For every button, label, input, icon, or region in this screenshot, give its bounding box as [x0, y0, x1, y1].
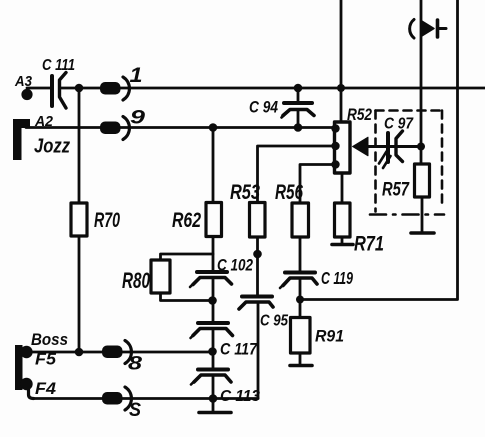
capacitor C94	[249, 88, 314, 128]
svg-text:C 97: C 97	[384, 116, 414, 133]
svg-text:C 111: C 111	[42, 57, 75, 74]
svg-text:1: 1	[130, 64, 143, 87]
node R53 bottom / C95 top	[253, 250, 262, 259]
resistor R53	[230, 181, 265, 237]
svg-text:C 95: C 95	[260, 313, 288, 330]
svg-text:F5: F5	[35, 351, 57, 369]
wire W9 (net 9, y=127.5)	[26, 126, 335, 129]
node C119 bottom / R91 top	[296, 296, 304, 304]
svg-text:A3: A3	[14, 73, 32, 90]
node R70 bottom on wire B	[75, 348, 84, 357]
capacitor C119	[280, 268, 353, 288]
svg-text:R70: R70	[94, 209, 120, 232]
node C102 bottom / R80 bottom	[208, 296, 217, 305]
ground (R71)	[332, 243, 353, 247]
svg-text:C 113: C 113	[220, 388, 260, 405]
capacitor C95	[239, 297, 288, 330]
resistor R56	[275, 181, 309, 237]
svg-text:R80: R80	[122, 268, 151, 293]
ground (R91)	[290, 364, 312, 368]
wire R80 bottom to V2	[161, 293, 214, 301]
svg-text:R71: R71	[354, 233, 384, 256]
capacitor C102	[190, 257, 253, 288]
node C97 / R57 top	[417, 143, 425, 151]
svg-text:9: 9	[130, 108, 146, 129]
diode at top right	[410, 20, 446, 39]
svg-text:8: 8	[128, 354, 143, 375]
wire V1 (R70 branch x=79)	[78, 88, 81, 352]
svg-text:Boss: Boss	[31, 330, 68, 349]
wire R56 top to R52 pin 3	[300, 165, 335, 204]
resistor R91	[291, 300, 345, 365]
node at C111 / R70 top	[75, 84, 84, 93]
ground (R57)	[411, 231, 434, 235]
svg-text:R91: R91	[315, 328, 344, 346]
potentiometer R52	[331, 105, 372, 173]
resistor R71	[335, 203, 385, 256]
node C94 top	[294, 84, 303, 93]
resistor R80	[122, 260, 170, 293]
connector 5	[102, 387, 141, 421]
node C94 bottom	[294, 123, 303, 132]
connector 8	[102, 341, 143, 375]
terminal A3	[14, 73, 32, 100]
wire W1 (net 1, y=88)	[27, 87, 485, 90]
wire V5 (right vertical x=457.5 with bottom return)	[300, 0, 458, 300]
connector 1	[100, 64, 143, 100]
resistor R70	[71, 203, 120, 236]
connector 9	[100, 108, 146, 140]
node W1 / V3	[337, 84, 345, 92]
wire V2 (R62/C102/C117/C113 branch x=213)	[212, 128, 215, 412]
capacitor C97	[379, 116, 414, 169]
wire R53 top to R52 pin 2	[258, 146, 336, 203]
svg-text:C 119: C 119	[321, 268, 353, 288]
resistor R62	[172, 203, 222, 237]
wiper arrow of R52	[353, 137, 422, 156]
svg-text:R57: R57	[382, 180, 410, 201]
svg-text:R62: R62	[172, 209, 201, 232]
wire V4 (top feed through diode to R57, x=421)	[420, 0, 423, 164]
svg-text:R52: R52	[347, 105, 372, 124]
ground (C113)	[199, 411, 231, 415]
svg-text:C 102: C 102	[217, 257, 253, 275]
svg-text:R53: R53	[230, 181, 260, 204]
wire R53 bottom through C95 to wire S	[256, 237, 259, 399]
svg-text:R56: R56	[275, 181, 303, 204]
terminal A2 (Jazz input bracket)	[13, 113, 70, 160]
svg-text:F4: F4	[35, 380, 56, 398]
wire F5/B (y=352)	[29, 351, 213, 354]
wire R80 top to V2	[161, 254, 214, 260]
wire F4/S (y=398.5)	[33, 397, 258, 400]
resistor R57	[382, 164, 430, 201]
svg-text:A2: A2	[34, 113, 54, 130]
node C113 bottom on wire S	[209, 394, 218, 403]
dashed box around C97/R57	[370, 111, 444, 215]
svg-text:C 117: C 117	[220, 341, 258, 359]
node W9 / R62 top	[209, 123, 218, 132]
svg-text:C 94: C 94	[249, 99, 278, 117]
capacitor C117	[191, 323, 258, 359]
svg-text:S: S	[129, 400, 141, 421]
capacitor C111	[42, 57, 75, 108]
wire R52 bottom to R71	[341, 173, 344, 203]
svg-text:Jozz: Jozz	[34, 136, 70, 158]
wire R56 bottom to C119	[299, 237, 302, 300]
capacitor C113	[191, 370, 260, 406]
wire V3 (top feed to R52, x=341)	[340, 0, 343, 122]
wire R57 to ground	[421, 197, 424, 232]
wire R71 to ground	[341, 237, 344, 244]
node C117 bottom on wire B	[208, 347, 217, 356]
terminal Bass bracket (F5/F4)	[15, 330, 68, 399]
